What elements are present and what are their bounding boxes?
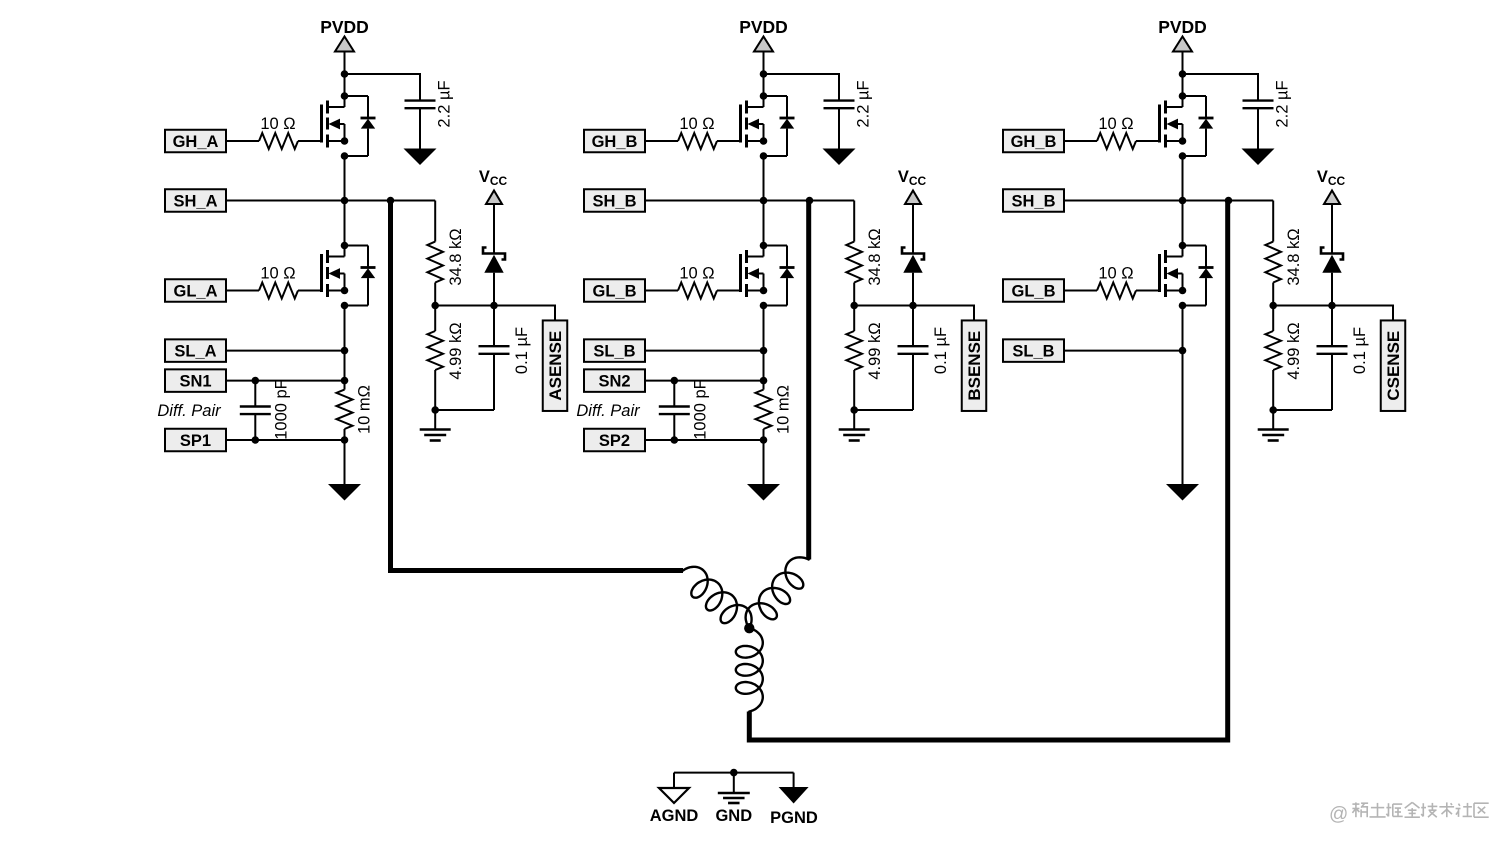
junction: SH node at motor branch (phase 1) xyxy=(387,197,395,205)
capacitor C2 2.2 µF xyxy=(824,101,855,109)
svg-text:4.99 kΩ: 4.99 kΩ xyxy=(447,322,465,379)
resistor 4.99 kΩ (phase 2) xyxy=(846,331,862,370)
svg-text:1000 pF: 1000 pF xyxy=(272,379,290,440)
port label SH_B (phase 3) xyxy=(1003,189,1064,212)
resistor 10 Ω low-side gate (phase 2) xyxy=(678,283,717,299)
junction: SH node at motor branch (phase 2) xyxy=(806,197,814,205)
svg-text:34.8 kΩ: 34.8 kΩ xyxy=(866,228,884,285)
zener clamp diode D3z xyxy=(1321,248,1343,273)
port label SP1 xyxy=(165,429,226,452)
junction: SN1 at shunt xyxy=(341,377,349,385)
wire Q4 source to SL node (phase 2) xyxy=(763,306,765,351)
svg-text:2.2 µF: 2.2 µF xyxy=(1274,80,1292,127)
svg-text:PVDD: PVDD xyxy=(739,17,788,37)
svg-text:0.1 µF: 0.1 µF xyxy=(1351,327,1369,374)
wire SH_A node (phase 1) xyxy=(226,200,435,202)
wire SN2 to shunt top (phase 2) xyxy=(645,380,764,382)
port label SN1 xyxy=(165,369,226,392)
port label SL_B (phase 3) xyxy=(1003,339,1064,362)
wire gate resistor to Q5 gate (phase 3) xyxy=(1136,140,1160,142)
svg-text:SH_B: SH_B xyxy=(1011,192,1055,210)
svg-text:2.2 µF: 2.2 µF xyxy=(436,80,454,127)
body diode of Q6 low-side (phase 3) xyxy=(1183,246,1214,306)
svg-text:SL_B: SL_B xyxy=(1012,343,1054,361)
wire ground tie bus xyxy=(674,772,794,774)
capacitor C2s 0.1 µF xyxy=(898,346,929,354)
wire SP1 to shunt bottom xyxy=(226,439,345,441)
wire (thick) motor winding to phase C SH xyxy=(749,201,1227,741)
wire Q6 source to SL node (phase 3) xyxy=(1182,306,1184,351)
wire SN1 to shunt top (phase 1) xyxy=(226,380,345,382)
junction: divider bottom (phase 1) xyxy=(431,406,439,414)
wire SN to filter cap (phase 2) xyxy=(673,381,675,407)
resistor 10 mΩ shunt R1s xyxy=(337,381,353,440)
wire divider tap to sense port (phase 2) xyxy=(854,306,974,321)
ground arrow PGND under bypass cap (phase 2) xyxy=(823,149,856,166)
wire SL node to SN node (phase 1) xyxy=(344,351,346,381)
transistor Q5 high-side (phase 3) (N-MOSFET) xyxy=(1160,92,1187,160)
wire to bypass cap (phase 1) xyxy=(345,74,421,100)
zener clamp diode D2z xyxy=(902,248,924,273)
wire to earth ground (phase 2) xyxy=(853,410,855,430)
wire GL_B to gate resistor (phase 2) xyxy=(645,290,678,292)
wire cap to ground arrow (phase 1) xyxy=(419,108,421,148)
svg-text:GH_B: GH_B xyxy=(1011,133,1057,151)
port label GL_A (phase 1) xyxy=(165,279,226,302)
svg-text:4.99 kΩ: 4.99 kΩ xyxy=(1285,322,1303,379)
svg-text:2.2 µF: 2.2 µF xyxy=(855,80,873,127)
junction: SP1 at shunt xyxy=(341,436,349,444)
svg-text:SL_A: SL_A xyxy=(174,343,216,361)
port label BSENSE xyxy=(962,320,987,411)
wire to earth ground (phase 3) xyxy=(1272,410,1274,430)
wire Q5 source to SH node (phase 3) xyxy=(1182,156,1184,201)
wire to AGND symbol xyxy=(673,773,675,788)
ground arrow PGND (phase 3) xyxy=(1166,484,1199,501)
wire divider bottom to cap bottom (phase 3) xyxy=(1273,409,1332,411)
watermark xyxy=(1329,802,1489,825)
svg-text:ASENSE: ASENSE xyxy=(546,331,565,401)
svg-text:SN1: SN1 xyxy=(179,373,211,391)
junction: tap at zener/cap (phase 3) xyxy=(1328,302,1336,310)
wire Vcc to zener cathode (phase 3) xyxy=(1331,204,1333,254)
resistor 4.99 kΩ (phase 3) xyxy=(1265,331,1281,370)
wire SL_B to source node (phase 3) xyxy=(1064,350,1183,352)
wire 4.99k to ground (phase 1) xyxy=(434,370,436,410)
wire cap to ground arrow (phase 3) xyxy=(1257,108,1259,148)
port label SN2 xyxy=(584,369,645,392)
svg-text:10 Ω: 10 Ω xyxy=(1098,265,1133,283)
wire tap to 4.99k (phase 3) xyxy=(1272,306,1274,332)
wire SL_A to source node (phase 1) xyxy=(226,350,345,352)
wire Vcc to zener cathode (phase 1) xyxy=(493,204,495,254)
junction: SP1 at filter cap xyxy=(252,436,260,444)
junction: PVDD / bypass-cap branch (phase 1) xyxy=(341,70,349,78)
junction: SH node at half-bridge (phase 3) xyxy=(1179,197,1187,205)
body diode of Q4 low-side (phase 2) xyxy=(764,246,795,306)
resistor 34.8 kΩ (phase 3) xyxy=(1265,242,1281,283)
svg-text:AGND: AGND xyxy=(650,807,699,825)
body diode of Q3 high-side (phase 2) xyxy=(764,96,795,156)
port label CSENSE xyxy=(1381,320,1406,411)
svg-text:CSENSE: CSENSE xyxy=(1384,331,1403,401)
svg-text:GH_A: GH_A xyxy=(173,133,219,151)
junction: SH node at half-bridge (phase 2) xyxy=(760,197,768,205)
junction: SP2 at filter cap xyxy=(671,436,679,444)
ground arrow PGND under bypass cap (phase 3) xyxy=(1242,149,1275,166)
body diode of Q5 high-side (phase 3) xyxy=(1183,96,1214,156)
resistor 10 Ω high-side gate (phase 1) xyxy=(259,133,298,149)
wire to GND symbol xyxy=(733,773,735,793)
ground arrow PGND (phase 2) xyxy=(747,484,780,501)
wire to bypass cap (phase 3) xyxy=(1183,74,1259,100)
wire gate resistor to Q4 gate (phase 2) xyxy=(717,290,741,292)
earth ground symbol (phase 1) xyxy=(420,428,451,431)
junction: SL node (phase 1) xyxy=(341,347,349,355)
junction: SL node (phase 3) xyxy=(1179,347,1187,355)
resistor 34.8 kΩ (phase 1) xyxy=(427,242,443,283)
svg-text:10 Ω: 10 Ω xyxy=(260,265,295,283)
junction: tap at zener/cap (phase 1) xyxy=(490,302,498,310)
junction: SH node at half-bridge (phase 1) xyxy=(341,197,349,205)
wire SL_B to source node (phase 2) xyxy=(645,350,764,352)
power flag Vcc (phase 2) xyxy=(898,168,927,204)
resistor 10 Ω low-side gate (phase 3) xyxy=(1097,283,1136,299)
wire SH node to low-side drain (phase 1) xyxy=(344,201,346,246)
svg-text:10 mΩ: 10 mΩ xyxy=(775,385,793,434)
wire zener anode to tap (phase 2) xyxy=(912,273,914,306)
wire divider tap to sense port (phase 1) xyxy=(435,306,555,321)
junction: PVDD / bypass-cap branch (phase 2) xyxy=(760,70,768,78)
wire gate resistor to Q2 gate (phase 1) xyxy=(298,290,322,292)
wire SH to divider (phase 2) xyxy=(853,201,855,242)
power flag PVDD (phase 1) xyxy=(320,17,369,52)
svg-text:Diff. Pair: Diff. Pair xyxy=(157,402,222,420)
wire SL node to ground arrow (phase 3) xyxy=(1182,351,1184,484)
transistor Q3 high-side (phase 2) (N-MOSFET) xyxy=(741,92,768,160)
wire SP2 to shunt bottom xyxy=(645,439,764,441)
svg-text:10 Ω: 10 Ω xyxy=(679,265,714,283)
svg-text:PVDD: PVDD xyxy=(320,17,369,37)
body diode of Q1 high-side (phase 1) xyxy=(345,96,376,156)
wire to bypass cap (phase 2) xyxy=(764,74,840,100)
resistor 10 mΩ shunt R2s xyxy=(756,381,772,440)
body diode of Q2 low-side (phase 1) xyxy=(345,246,376,306)
wire SH to divider (phase 1) xyxy=(434,201,436,242)
junction: SH node at motor branch (phase 3) xyxy=(1225,197,1233,205)
zener clamp diode D1z xyxy=(483,248,505,273)
port label ASENSE xyxy=(543,320,568,411)
capacitor C3 2.2 µF xyxy=(1243,101,1274,109)
power flag Vcc (phase 1) xyxy=(479,168,508,204)
wire GL_B to gate resistor (phase 3) xyxy=(1064,290,1097,292)
svg-text:SL_B: SL_B xyxy=(593,343,635,361)
transistor Q1 high-side (phase 1) (N-MOSFET) xyxy=(322,92,349,160)
resistor 10 Ω high-side gate (phase 3) xyxy=(1097,133,1136,149)
wire SN to filter cap (phase 1) xyxy=(254,381,256,407)
port label GL_B (phase 3) xyxy=(1003,279,1064,302)
resistor 4.99 kΩ (phase 1) xyxy=(427,331,443,370)
resistor 10 Ω high-side gate (phase 2) xyxy=(678,133,717,149)
svg-text:BSENSE: BSENSE xyxy=(965,331,984,401)
inductor: motor winding phase C xyxy=(736,628,763,711)
wire to PGND symbol xyxy=(793,773,795,787)
junction: SL node (phase 2) xyxy=(760,347,768,355)
svg-text:GND: GND xyxy=(715,807,752,825)
wire cap to ground arrow (phase 2) xyxy=(838,108,840,148)
wire PVDD to high-side drain (phase 2) xyxy=(763,52,765,97)
svg-text:SH_B: SH_B xyxy=(592,192,636,210)
wire tap to 0.1 µF cap (phase 1) xyxy=(493,306,495,347)
port label SH_A (phase 1) xyxy=(165,189,226,212)
port label SP2 xyxy=(584,429,645,452)
ground arrow PGND (phase 1) xyxy=(328,484,361,501)
svg-text:4.99 kΩ: 4.99 kΩ xyxy=(866,322,884,379)
capacitor C1 2.2 µF xyxy=(405,101,436,109)
power flag PVDD (phase 3) xyxy=(1158,17,1207,52)
wire SL node to SN node (phase 2) xyxy=(763,351,765,381)
wire SH to divider (phase 3) xyxy=(1272,201,1274,242)
ground symbol AGND (open arrow) xyxy=(659,788,689,803)
earth ground symbol (phase 2) xyxy=(839,428,870,431)
wire gate resistor to Q3 gate (phase 2) xyxy=(717,140,741,142)
svg-text:PVDD: PVDD xyxy=(1158,17,1207,37)
wire 4.99k to ground (phase 3) xyxy=(1272,370,1274,410)
wire (thick) phase A to motor winding xyxy=(391,201,684,571)
wire to earth ground (phase 1) xyxy=(434,410,436,430)
junction: divider tap (phase 2) xyxy=(850,302,858,310)
svg-text:10 Ω: 10 Ω xyxy=(260,115,295,133)
svg-text:PGND: PGND xyxy=(770,809,818,827)
wire divider bottom to cap bottom (phase 2) xyxy=(854,409,913,411)
svg-text:0.1 µF: 0.1 µF xyxy=(513,327,531,374)
wire divider tap to sense port (phase 3) xyxy=(1273,306,1393,321)
svg-text:10 mΩ: 10 mΩ xyxy=(356,385,374,434)
wire gate resistor to Q6 gate (phase 3) xyxy=(1136,290,1160,292)
junction: PVDD / bypass-cap branch (phase 3) xyxy=(1179,70,1187,78)
wire zener anode to tap (phase 3) xyxy=(1331,273,1333,306)
svg-text:1000 pF: 1000 pF xyxy=(691,379,709,440)
wire 0.1 µF to ground (phase 3) xyxy=(1331,354,1333,410)
svg-text:SH_A: SH_A xyxy=(173,192,217,210)
junction: motor star point xyxy=(744,623,754,633)
wire (thick) phase B to motor winding xyxy=(806,201,811,560)
ground symbol GND (earth) xyxy=(718,792,750,795)
wire filter cap to SP (phase 2) xyxy=(673,414,675,440)
wire GH_B to gate resistor (phase 3) xyxy=(1064,140,1097,142)
junction: tap at zener/cap (phase 2) xyxy=(909,302,917,310)
capacitor C1s 0.1 µF xyxy=(479,346,510,354)
wire GH_B to gate resistor (phase 2) xyxy=(645,140,678,142)
svg-text:34.8 kΩ: 34.8 kΩ xyxy=(447,228,465,285)
junction: SN1 at filter cap xyxy=(252,377,260,385)
wire divider bottom to cap bottom (phase 1) xyxy=(435,409,494,411)
port label SL_A (phase 1) xyxy=(165,339,226,362)
svg-text:SN2: SN2 xyxy=(598,373,630,391)
junction: divider bottom (phase 3) xyxy=(1269,406,1277,414)
wire SH node to low-side drain (phase 3) xyxy=(1182,201,1184,246)
wire Vcc to zener cathode (phase 2) xyxy=(912,204,914,254)
wire tap to 0.1 µF cap (phase 2) xyxy=(912,306,914,347)
wire Q1 source to SH node (phase 1) xyxy=(344,156,346,201)
svg-text:SP1: SP1 xyxy=(180,432,211,450)
wire gate resistor to Q1 gate (phase 1) xyxy=(298,140,322,142)
wire 4.99k to ground (phase 2) xyxy=(853,370,855,410)
wire divider mid (phase 1) xyxy=(434,283,436,306)
svg-text:@: @ xyxy=(1329,804,1348,825)
svg-text:GL_B: GL_B xyxy=(1011,282,1055,300)
wire SH node to low-side drain (phase 2) xyxy=(763,201,765,246)
wire tap to 4.99k (phase 2) xyxy=(853,306,855,332)
junction: divider bottom (phase 2) xyxy=(850,406,858,414)
wire filter cap to SP (phase 1) xyxy=(254,414,256,440)
svg-text:0.1 µF: 0.1 µF xyxy=(932,327,950,374)
port label GH_B (phase 2) xyxy=(584,130,645,153)
wire divider mid (phase 3) xyxy=(1272,283,1274,306)
wire shunt to ground arrow (phase 2) xyxy=(763,440,765,484)
ground symbol PGND (solid arrow) xyxy=(779,787,809,804)
svg-text:34.8 kΩ: 34.8 kΩ xyxy=(1285,228,1303,285)
wire SH_B node (phase 3) xyxy=(1064,200,1273,202)
wire 0.1 µF to ground (phase 2) xyxy=(912,354,914,410)
svg-text:10 Ω: 10 Ω xyxy=(679,115,714,133)
ground arrow PGND under bypass cap (phase 1) xyxy=(404,149,437,166)
svg-text:GL_A: GL_A xyxy=(173,282,217,300)
resistor 34.8 kΩ (phase 2) xyxy=(846,242,862,283)
wire shunt to ground arrow (phase 1) xyxy=(344,440,346,484)
wire GL_A to gate resistor (phase 1) xyxy=(226,290,259,292)
junction: SP2 at shunt xyxy=(760,436,768,444)
wire tap to 0.1 µF cap (phase 3) xyxy=(1331,306,1333,347)
power flag Vcc (phase 3) xyxy=(1317,168,1346,204)
wire tap to 4.99k (phase 1) xyxy=(434,306,436,332)
capacitor C1f 1000 pF xyxy=(240,407,271,415)
wire PVDD to high-side drain (phase 3) xyxy=(1182,52,1184,97)
port label SL_B (phase 2) xyxy=(584,339,645,362)
wire Q2 source to SL node (phase 1) xyxy=(344,306,346,351)
inductor: motor winding phase A xyxy=(683,567,752,628)
svg-text:Diff. Pair: Diff. Pair xyxy=(576,402,641,420)
junction: SN2 at filter cap xyxy=(671,377,679,385)
port label GH_B (phase 3) xyxy=(1003,130,1064,153)
svg-text:10 Ω: 10 Ω xyxy=(1098,115,1133,133)
earth ground symbol (phase 3) xyxy=(1258,428,1289,431)
port label GL_B (phase 2) xyxy=(584,279,645,302)
svg-text:SP2: SP2 xyxy=(599,432,630,450)
junction: divider tap (phase 3) xyxy=(1269,302,1277,310)
wire SH_B node (phase 2) xyxy=(645,200,854,202)
wire divider mid (phase 2) xyxy=(853,283,855,306)
inductor: motor winding phase B xyxy=(746,557,809,628)
power flag PVDD (phase 2) xyxy=(739,17,788,52)
junction: ground tie at GND xyxy=(730,769,738,777)
svg-text:GL_B: GL_B xyxy=(592,282,636,300)
wire 0.1 µF to ground (phase 1) xyxy=(493,354,495,410)
wire PVDD to high-side drain (phase 1) xyxy=(344,52,346,97)
transistor Q4 low-side (phase 2) (N-MOSFET) xyxy=(741,242,768,310)
port label SH_B (phase 2) xyxy=(584,189,645,212)
wire GH_A to gate resistor (phase 1) xyxy=(226,140,259,142)
wire zener anode to tap (phase 1) xyxy=(493,273,495,306)
junction: SN2 at shunt xyxy=(760,377,768,385)
svg-text:GH_B: GH_B xyxy=(592,133,638,151)
junction: divider tap (phase 1) xyxy=(431,302,439,310)
wire Q3 source to SH node (phase 2) xyxy=(763,156,765,201)
capacitor C3s 0.1 µF xyxy=(1317,346,1348,354)
port label GH_A (phase 1) xyxy=(165,130,226,153)
resistor 10 Ω low-side gate (phase 1) xyxy=(259,283,298,299)
transistor Q6 low-side (phase 3) (N-MOSFET) xyxy=(1160,242,1187,310)
capacitor C2f 1000 pF xyxy=(659,407,690,415)
transistor Q2 low-side (phase 1) (N-MOSFET) xyxy=(322,242,349,310)
